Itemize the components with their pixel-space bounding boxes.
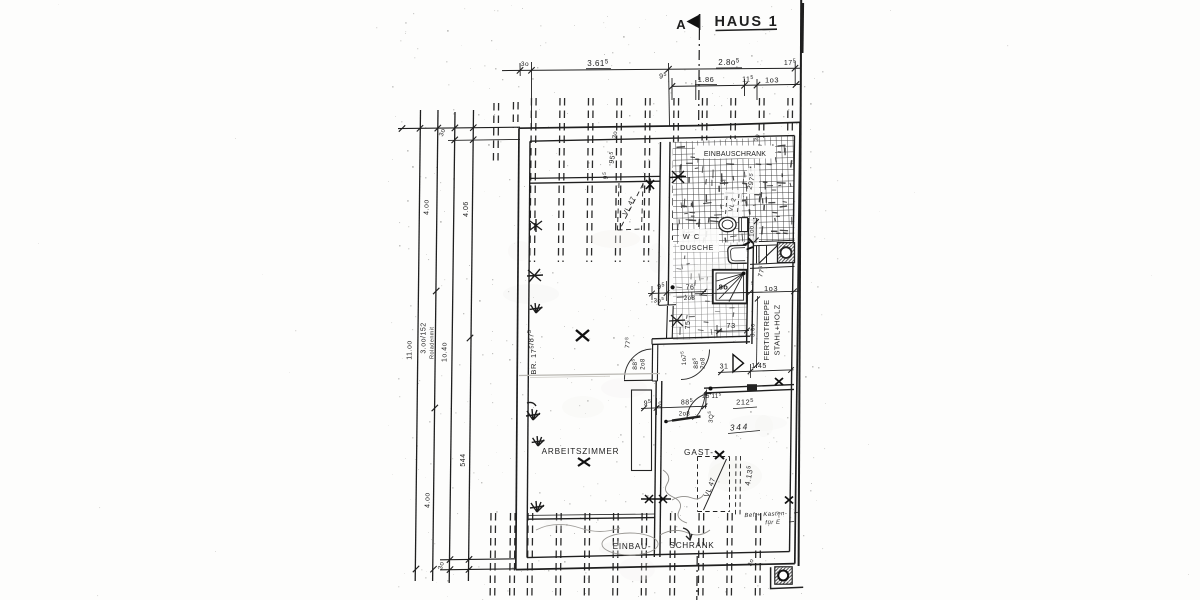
scribble cross near wall jog	[669, 314, 685, 327]
svg-text:A: A	[676, 17, 686, 32]
wall left inner	[527, 141, 530, 557]
door arc hall-stairs	[681, 350, 710, 380]
svg-text:STAHL+HOLZ: STAHL+HOLZ	[773, 304, 782, 355]
X mark room center	[576, 330, 589, 341]
svg-text:FERTIGTREPPE: FERTIGTREPPE	[762, 300, 771, 361]
svg-text:3o: 3o	[521, 61, 529, 68]
svg-text:EINBAUSCHRANK: EINBAUSCHRANK	[704, 151, 766, 158]
svg-text:DUSCHE: DUSCHE	[680, 243, 714, 252]
X mark stair room	[775, 378, 783, 385]
svg-text:3.oo/152: 3.oo/152	[421, 322, 428, 353]
svg-text:4.06: 4.06	[463, 201, 470, 217]
svg-text:31: 31	[720, 364, 729, 371]
svg-text:1.86: 1.86	[698, 75, 715, 84]
wall hall east (Arbeitszimmer/Gast)	[654, 381, 662, 557]
section marker A	[676, 14, 699, 32]
pencil ellipse around EINBAU	[602, 533, 658, 555]
wall WC east	[747, 218, 754, 344]
dashed rafter lines (roof overhang)	[490, 98, 792, 600]
partition band lines (left room top strip)	[530, 176, 660, 178]
dim cluster middle (9/76/2o8 door)	[623, 281, 707, 370]
svg-text:1o.4o: 1o.4o	[442, 342, 449, 362]
scribble marks left wall	[526, 219, 544, 512]
left dimension tick marks	[399, 125, 477, 573]
VL 47 dashed detail (top band)	[618, 183, 644, 230]
svg-text:W C: W C	[683, 232, 701, 241]
svg-text:76: 76	[686, 285, 695, 292]
faint crease line	[519, 374, 660, 378]
wardrobe rectangle (Arbeitszimmer east)	[632, 390, 652, 471]
X mark right wall	[785, 497, 793, 504]
dim 31 / 145 line	[718, 363, 794, 378]
svg-text:2o8: 2o8	[641, 358, 647, 370]
wall WC west lower jog	[667, 306, 674, 339]
door leaf hall-WC	[624, 379, 652, 381]
rotated labels band left (3o / 95 / 9)	[601, 130, 619, 180]
pencil squiggle band left	[536, 524, 620, 531]
dim line y292 stair room	[695, 289, 800, 296]
dashed pair right of wardrobe	[736, 456, 741, 516]
svg-text:SCHRANK: SCHRANK	[670, 541, 715, 550]
svg-text:2o8: 2o8	[679, 412, 691, 418]
left dimension chain lines L1-L4	[415, 110, 473, 583]
label 77 / 1o3 (stair room)	[751, 265, 778, 293]
dashed wardrobe VL 47 (Gast)	[698, 457, 730, 512]
label EINBAUSCHRANK	[695, 146, 775, 159]
double window marks band bottom	[641, 495, 671, 503]
K mark on wall top	[670, 171, 686, 183]
wall WC south	[652, 336, 750, 344]
svg-text:1o3: 1o3	[765, 76, 779, 85]
dim cluster gast door (9/1o/88/2o8)	[641, 387, 722, 424]
svg-text:für E: für E	[765, 520, 781, 527]
svg-text:1.45: 1.45	[751, 363, 767, 370]
svg-text:1oo: 1oo	[750, 225, 756, 237]
title HAUS 1	[715, 14, 779, 31]
handwritten 344	[728, 421, 760, 433]
svg-text:3 4 4: 3 4 4	[729, 421, 748, 432]
dark rect on wall	[747, 384, 757, 390]
wall right outer	[795, 122, 800, 563]
small arrow band	[683, 528, 692, 540]
wall WC west	[659, 142, 677, 306]
door arc hall-WC	[624, 349, 651, 380]
wall right inner	[790, 136, 795, 552]
right border line	[799, 0, 803, 566]
label ARBEITSZIMMER	[542, 447, 620, 466]
wall top outer	[519, 126, 697, 129]
tiled hatch area WC / EINBAUSCHRANK	[673, 136, 795, 244]
drain marks WC	[742, 238, 753, 250]
svg-text:544: 544	[460, 453, 467, 466]
svg-text:ARBEITSZIMMER: ARBEITSZIMMER	[542, 447, 620, 456]
svg-text:4.oo: 4.oo	[424, 199, 431, 215]
label backings in hatch	[724, 168, 759, 243]
dim 73 (stair)	[716, 321, 750, 337]
rotated label VL 2 (WC)	[726, 194, 740, 215]
svg-text:HAUS 1: HAUS 1	[715, 14, 779, 30]
wall bottom outer	[516, 564, 795, 570]
label FERTIGTREPPE STAHL+HOLZ	[762, 300, 782, 361]
svg-text:73: 73	[726, 321, 735, 330]
triangle symbol	[733, 355, 744, 373]
pencil squiggles gast room	[660, 470, 710, 535]
wall bottom inner	[527, 552, 790, 558]
dim 1oo (WC east)	[750, 218, 759, 243]
svg-text:4.oo: 4.oo	[425, 492, 432, 508]
label WC DUSCHE	[679, 229, 719, 252]
shower tray	[713, 270, 747, 304]
left dimension horizontal extension lines	[398, 127, 520, 570]
label EINBAU- SCHRANK	[613, 541, 715, 551]
paper tone blotches	[503, 230, 787, 581]
label 2.12	[733, 398, 757, 409]
door arc stair room	[687, 394, 712, 420]
svg-text:11.oo: 11.oo	[407, 340, 414, 360]
einbau band line	[529, 514, 655, 519]
label GAST	[684, 448, 724, 459]
star mark near VL47	[646, 179, 654, 191]
toilet	[719, 217, 748, 231]
niche hatched chimney	[778, 243, 795, 263]
section line A (dash-dot)	[697, 30, 700, 600]
svg-text:GAST-: GAST-	[684, 448, 714, 457]
dim 3.oo vertical (stair)	[751, 296, 760, 368]
stairs steps	[757, 246, 778, 264]
handwritten note Bef Kasten	[744, 511, 799, 527]
dimension line top (3o / 3.61 / 2.8o / 17)	[502, 58, 800, 128]
svg-text:2o8: 2o8	[684, 296, 696, 302]
dimension line top (1.86 / 11 / 1o3)	[669, 75, 800, 100]
svg-text:75: 75	[685, 321, 692, 330]
niche wall upper pair	[753, 240, 795, 246]
tiled hatch area WC floor lower	[673, 242, 748, 340]
stair room wall south	[704, 385, 794, 393]
svg-text:2o8: 2o8	[701, 357, 707, 369]
wall top inner	[530, 136, 795, 142]
wall left outer	[516, 128, 519, 569]
svg-text:5: 5	[751, 281, 754, 286]
chimney bottom right	[771, 567, 804, 589]
washbasin	[728, 245, 747, 263]
svg-text:Roladen: Roladen	[430, 335, 436, 359]
hatch clutter strokes	[676, 145, 792, 335]
left dimension labels (rotated)	[407, 127, 471, 570]
door stub below WC	[652, 344, 658, 381]
svg-text:3.oo: 3.oo	[751, 323, 757, 337]
svg-text:8o: 8o	[719, 283, 729, 292]
niche wall lower pair	[750, 262, 795, 268]
svg-text:mit: mit	[430, 327, 436, 336]
svg-text:EINBAU-: EINBAU-	[613, 542, 652, 551]
